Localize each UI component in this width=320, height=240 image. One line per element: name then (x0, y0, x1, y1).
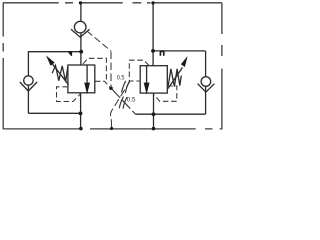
svg-text:0.5: 0.5 (127, 96, 136, 103)
svg-text:0.5: 0.5 (117, 74, 125, 81)
